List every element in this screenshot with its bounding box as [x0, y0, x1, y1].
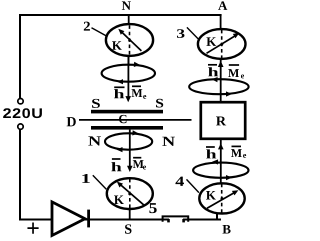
- label B bottom: [223, 225, 231, 234]
- galvanometer K3 needle: [207, 35, 237, 53]
- terminal lower 220V: [18, 124, 23, 129]
- current loop 1 arrow top: [132, 130, 138, 135]
- hbar overbar branch2: [114, 86, 124, 88]
- label hbar branch1: [111, 162, 121, 171]
- galvanometer K3 body: [198, 29, 246, 59]
- galvanometer K3 pivot dot: [220, 43, 223, 46]
- moment arrow down to K1: [127, 166, 133, 172]
- wire A corner down to K3: [220, 14, 222, 30]
- diode V5 triangle: [52, 202, 85, 236]
- galvanometer K1 needle head: [117, 182, 123, 188]
- label 4: [175, 177, 184, 186]
- label C: [119, 115, 126, 123]
- Me overbar branch2: [132, 85, 141, 87]
- galvanometer K3 label K: [206, 37, 216, 46]
- galvanometer K1 label K: [114, 195, 124, 204]
- wire stub under K4: [216, 214, 218, 220]
- galvanometer K2 body: [106, 24, 153, 56]
- galvanometer K2 needle: [121, 31, 141, 51]
- Me overbar branch1: [133, 157, 141, 159]
- label N plate right: [162, 137, 175, 146]
- wire bottom plate to loop1: [129, 130, 131, 166]
- moment arrow down to plate: [125, 96, 131, 102]
- current loop 2 arrow bottom: [117, 79, 123, 84]
- moment arrow up to R: [218, 143, 224, 149]
- galvanometer K4 needle head: [232, 190, 239, 195]
- wire loop2 down: [127, 56, 129, 97]
- current loop 4 arrow top: [212, 159, 218, 164]
- label + polarity: [27, 223, 38, 234]
- wire K2 to loop2: [128, 56, 130, 66]
- label Me branch1: [133, 160, 144, 168]
- pointer line 1: [93, 175, 107, 189]
- current loop 1 arrow bottom: [117, 147, 123, 152]
- galvanometer K3 needle head: [233, 33, 240, 38]
- capacitor C bottom plate: [91, 126, 163, 130]
- switch 5 bridge: [163, 216, 189, 221]
- wire bottom left horizontal: [19, 219, 53, 221]
- label N top: [122, 1, 131, 10]
- Me overbar branch3: [229, 64, 239, 66]
- galvanometer K1 body: [107, 178, 153, 209]
- galvanometer K3 axis dashed: [221, 30, 223, 58]
- label hbar branch4: [206, 149, 216, 158]
- pointer line 2: [92, 28, 108, 37]
- dielectric middle line: [79, 119, 192, 121]
- wire K1 to bottom wire: [129, 209, 131, 220]
- wire switch to B: [183, 219, 221, 221]
- label hbar branch3: [208, 67, 218, 76]
- label Me branch2: [132, 89, 143, 97]
- hbar overbar branch3: [208, 64, 217, 66]
- capacitor C top plate: [91, 110, 163, 114]
- current loop 3 arrow top: [212, 77, 218, 82]
- diode V5 cathode bar: [87, 210, 90, 228]
- switch 5 left foot: [167, 219, 170, 222]
- label 5: [149, 203, 156, 213]
- galvanometer K2 axis dashed: [129, 25, 131, 55]
- current loop 3 arrow bottom: [226, 91, 232, 96]
- galvanometer K4 needle: [207, 192, 236, 208]
- wire K3 down to R: [220, 59, 222, 102]
- label 1: [82, 174, 89, 183]
- Me overbar branch4: [232, 145, 242, 147]
- label S bottom: [125, 224, 131, 233]
- pointer line 4: [187, 179, 199, 192]
- moment arrow up to K3: [218, 61, 224, 67]
- galvanometer K1 needle: [120, 184, 145, 205]
- hbar overbar branch1: [112, 158, 121, 160]
- galvanometer K4 pivot dot: [221, 197, 224, 200]
- current loop 2 arrow top: [134, 62, 140, 67]
- switch 5 right foot: [182, 219, 185, 222]
- galvanometer K4 body: [199, 183, 244, 213]
- galvanometer K2 label K: [112, 41, 122, 50]
- label 220V: [3, 108, 11, 118]
- galvanometer K2 pivot dot: [128, 39, 131, 42]
- wire left vertical lower: [19, 129, 21, 220]
- galvanometer K4 label K: [206, 191, 216, 200]
- pointer line 3: [187, 27, 198, 39]
- current loop 4: [193, 163, 248, 178]
- galvanometer K1 axis dashed: [129, 179, 131, 209]
- wire R down to loop4: [220, 139, 222, 184]
- label 2: [84, 22, 90, 31]
- wire left vertical upper: [19, 14, 21, 98]
- label Me branch3: [228, 69, 239, 77]
- label 3: [177, 29, 185, 38]
- label D: [67, 117, 76, 126]
- galvanometer K2 needle head: [118, 29, 124, 35]
- current loop 4 arrow bottom: [226, 175, 232, 180]
- label S plate left: [92, 99, 100, 108]
- label N plate left: [88, 136, 101, 145]
- wire diode to switch: [84, 219, 169, 221]
- hbar overbar branch4: [206, 146, 215, 148]
- label hbar branch2: [114, 89, 124, 98]
- wire N junction down to K2: [128, 14, 130, 25]
- label A top: [218, 1, 227, 10]
- wire top horizontal N-A: [19, 14, 222, 16]
- galvanometer K1 pivot dot: [128, 192, 131, 195]
- current loop 2: [102, 65, 155, 82]
- label R: [216, 117, 226, 126]
- current loop 1: [105, 133, 152, 149]
- label S plate right: [156, 99, 163, 108]
- label Me branch4: [231, 149, 242, 157]
- galvanometer K4 axis dashed: [221, 184, 223, 214]
- resistor R box: [201, 102, 245, 139]
- terminal upper 220V: [18, 99, 23, 104]
- current loop 3: [189, 79, 248, 94]
